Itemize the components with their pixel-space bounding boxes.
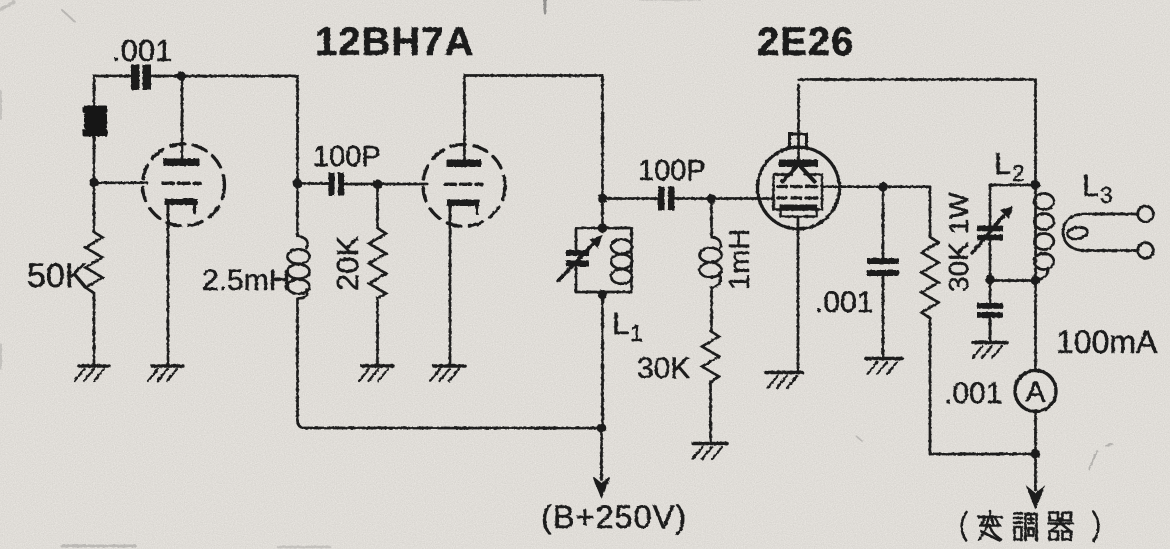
wire meter to modulator junction bbox=[1034, 412, 1037, 455]
label (B+250V) bbox=[541, 499, 687, 535]
wire V3 plate to top-right run bbox=[799, 80, 1036, 186]
node top (plate lead junction) bbox=[176, 71, 185, 80]
ground (30K) bbox=[693, 444, 728, 460]
capacitor 100P (interstage 1) bbox=[329, 173, 345, 196]
node F (screen bypass) bbox=[878, 182, 888, 192]
capacitor .001 screen bypass bbox=[867, 187, 899, 358]
tank L2 top node bbox=[1031, 180, 1041, 190]
tank L2 left bottom node bbox=[985, 275, 995, 285]
svg-text:100P: 100P bbox=[638, 155, 706, 187]
svg-text:(B+250V): (B+250V) bbox=[541, 499, 687, 535]
svg-text:A: A bbox=[1026, 377, 1046, 409]
label (変調器) modulator bbox=[962, 511, 1099, 541]
label 2.5mH bbox=[202, 264, 290, 297]
svg-text:L: L bbox=[994, 146, 1011, 181]
wire node D down to tank L1 bbox=[601, 199, 604, 229]
svg-text:L: L bbox=[1082, 168, 1099, 203]
resistor 30K bbox=[702, 331, 719, 443]
tube V3 2E26 bbox=[758, 85, 840, 229]
svg-text:12BH7A: 12BH7A bbox=[315, 20, 474, 64]
label .001 screen bbox=[815, 286, 873, 319]
ground (50K) bbox=[75, 366, 110, 381]
node C (20K junction) bbox=[373, 179, 383, 189]
wire bottom bus to B+ junction bbox=[298, 420, 602, 428]
inductor RFC 2.5mH bbox=[288, 184, 310, 421]
label .001 (L2 capacitor) bbox=[944, 377, 1002, 410]
svg-text:2E26: 2E26 bbox=[757, 20, 854, 64]
label .001 bbox=[112, 33, 172, 68]
label 100P #2 bbox=[638, 155, 706, 187]
tank L1 (variable capacitor + coil) bbox=[558, 228, 632, 292]
wire screen grid run bbox=[822, 185, 930, 188]
svg-text:100P: 100P bbox=[313, 141, 381, 173]
wire top-left horizontal with series cap bbox=[94, 75, 298, 78]
ground (screen bypass) bbox=[866, 359, 902, 375]
svg-text:30K: 30K bbox=[637, 352, 690, 385]
label 1mH (rotated) bbox=[724, 229, 756, 290]
wire cathode V3 to ground bbox=[797, 217, 800, 373]
resistor 50K bbox=[86, 183, 103, 367]
label 100mA bbox=[1056, 324, 1158, 360]
svg-text:50K: 50K bbox=[27, 257, 88, 295]
label 30K 1W (rotated) bbox=[943, 192, 974, 292]
wire node D to 2E26 grid bbox=[603, 197, 775, 200]
wire V2 plate top run to node D bbox=[465, 76, 603, 199]
svg-text:2.5mH: 2.5mH bbox=[202, 264, 290, 297]
crystal Y1 bbox=[83, 106, 108, 137]
coil L3 output link bbox=[1063, 206, 1153, 258]
capacitor .001 (L2 series to ground) bbox=[977, 280, 1003, 343]
ground (L2 capacitor) bbox=[973, 343, 1008, 359]
ground (V1 cathode) bbox=[148, 366, 183, 381]
svg-text:3: 3 bbox=[1100, 182, 1113, 208]
label 20K (rotated) bbox=[330, 236, 365, 291]
node B+ junction bbox=[597, 423, 607, 433]
label L3 bbox=[1082, 168, 1113, 208]
tube V2 12BH7A section B bbox=[423, 76, 505, 228]
svg-text:.001: .001 bbox=[944, 377, 1002, 410]
label 12BH7A bbox=[315, 20, 474, 64]
wire cathode V2 to ground bbox=[449, 227, 452, 366]
svg-text:20K: 20K bbox=[330, 236, 365, 291]
wire tank L1 to B+ junction bbox=[601, 292, 604, 428]
label 50K bbox=[27, 257, 88, 295]
modulator arrow bbox=[1028, 454, 1044, 508]
label 2E26 bbox=[757, 20, 854, 64]
wire L2 to meter bbox=[1034, 281, 1037, 371]
node E (1mH junction) bbox=[707, 194, 717, 204]
node B (grid-2 junction) bbox=[293, 179, 303, 189]
node modulator junction bbox=[1031, 449, 1041, 459]
label 30K bbox=[637, 352, 690, 385]
label L2 bbox=[994, 146, 1025, 186]
ground (20K) bbox=[359, 366, 393, 381]
svg-text:1: 1 bbox=[630, 320, 643, 346]
ground (V2 cathode) bbox=[430, 366, 465, 381]
ground (V3 cathode) bbox=[766, 373, 802, 389]
capacitor 100P (interstage 2) bbox=[658, 187, 675, 211]
tank L1 top node bbox=[598, 223, 608, 233]
label L1 bbox=[612, 306, 643, 346]
tube V1 12BH7A section A bbox=[143, 76, 225, 226]
svg-text:.001: .001 bbox=[815, 286, 873, 319]
node grid junction A bbox=[89, 178, 99, 188]
meter A (100mA) bbox=[1015, 371, 1056, 412]
svg-text:1mH: 1mH bbox=[724, 229, 756, 290]
wire grid of V1 bbox=[94, 181, 147, 184]
wire cathode V1 to ground bbox=[167, 225, 170, 366]
node D (driver plate node) bbox=[598, 194, 608, 204]
wire left vertical (crystal branch) bbox=[93, 76, 96, 183]
svg-text:.001: .001 bbox=[112, 33, 172, 68]
resistor 30K 1W bbox=[922, 187, 939, 454]
B+ supply arrow bbox=[594, 428, 610, 497]
inductor RFC 1mH bbox=[700, 199, 722, 331]
capacitor C1 .001 bbox=[131, 65, 151, 91]
svg-text:L: L bbox=[612, 306, 629, 341]
wire 30K 1W bottom to modulator junction bbox=[930, 453, 1036, 456]
svg-text:100mA: 100mA bbox=[1056, 324, 1158, 360]
svg-text:2: 2 bbox=[1012, 160, 1025, 186]
resistor 20K bbox=[369, 184, 386, 366]
label 100P bbox=[313, 141, 381, 173]
tank L2 (variable capacitor + coil) bbox=[972, 185, 1054, 281]
svg-text:30K 1W: 30K 1W bbox=[943, 192, 974, 292]
tank L1 bottom node bbox=[598, 290, 608, 300]
wire node B to V2 grid bbox=[298, 182, 428, 185]
wire top corner down to node B bbox=[296, 76, 299, 184]
tank L2 right bottom node bbox=[1031, 276, 1041, 286]
